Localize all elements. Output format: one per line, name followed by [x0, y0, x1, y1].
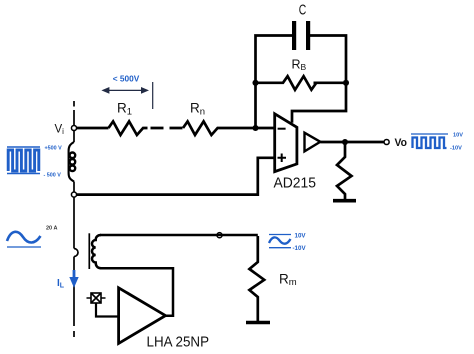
svg-text:20 A: 20 A — [46, 226, 57, 232]
svg-text:AD215: AD215 — [274, 176, 317, 192]
svg-text:-10V: -10V — [293, 245, 307, 252]
svg-text:C: C — [299, 1, 307, 18]
svg-text:+500 V: +500 V — [45, 146, 63, 152]
svg-text:- 500 V: - 500 V — [44, 173, 62, 179]
svg-text:10V: 10V — [295, 233, 307, 240]
svg-text:< 500V: < 500V — [113, 74, 140, 84]
svg-text:Vo: Vo — [395, 137, 408, 149]
svg-text:-10V: -10V — [450, 146, 462, 152]
svg-text:LHA 25NP: LHA 25NP — [147, 334, 210, 351]
svg-text:10V: 10V — [453, 133, 463, 139]
